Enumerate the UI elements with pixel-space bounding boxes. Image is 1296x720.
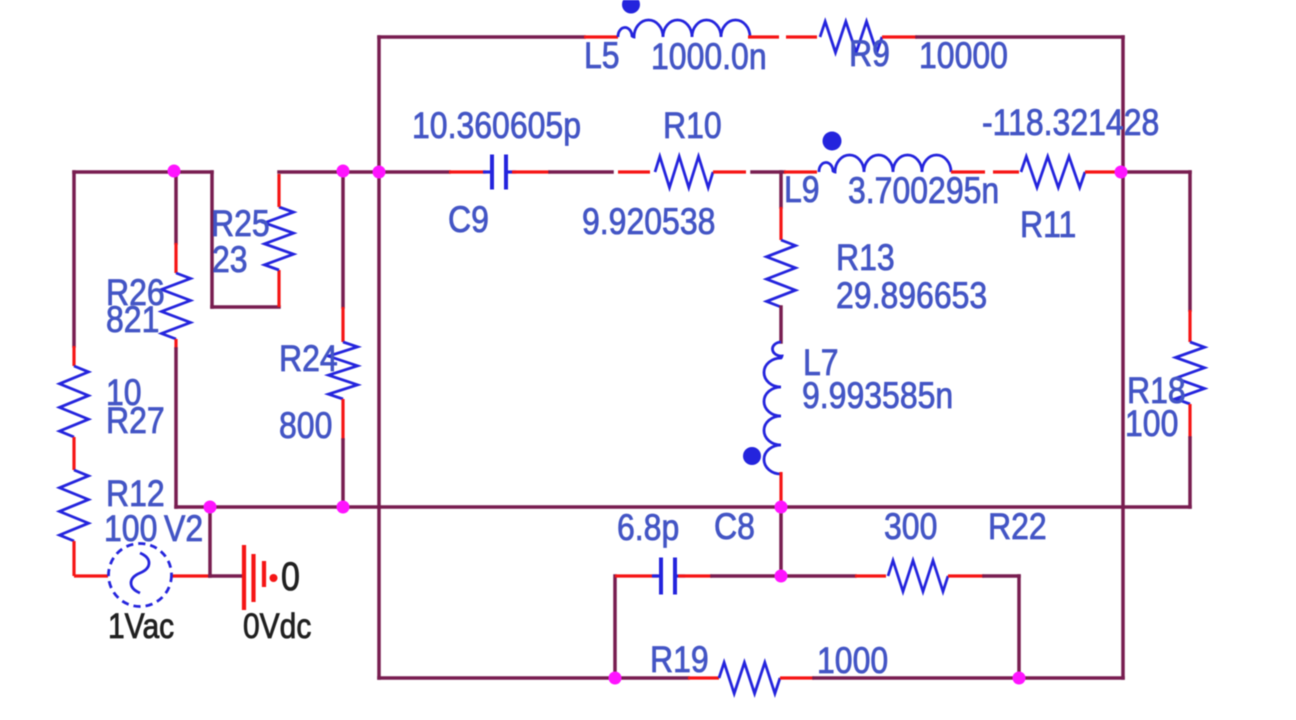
svg-text:C9: C9: [448, 200, 489, 241]
svg-text:C8: C8: [714, 507, 755, 548]
svg-text:-118.321428: -118.321428: [982, 103, 1159, 144]
svg-text:10000: 10000: [919, 36, 1008, 77]
svg-text:10.360605p: 10.360605p: [412, 106, 581, 147]
svg-text:R22: R22: [988, 507, 1047, 548]
svg-text:800: 800: [279, 406, 332, 447]
svg-text:9.993585n: 9.993585n: [802, 376, 953, 417]
svg-text:V2: V2: [164, 509, 203, 550]
svg-text:R10: R10: [663, 106, 722, 147]
svg-text:0: 0: [281, 555, 300, 599]
svg-text:1000: 1000: [817, 641, 888, 682]
svg-text:R11: R11: [1020, 205, 1076, 246]
svg-text:L5: L5: [584, 36, 620, 77]
svg-text:1000.0n: 1000.0n: [651, 37, 767, 78]
svg-text:100: 100: [1125, 404, 1178, 445]
svg-text:1Vac: 1Vac: [108, 607, 174, 646]
svg-text:100: 100: [104, 509, 157, 550]
svg-text:0Vdc: 0Vdc: [243, 607, 311, 646]
svg-text:6.8p: 6.8p: [617, 508, 679, 549]
svg-text:L9: L9: [784, 170, 820, 211]
svg-text:3.700295n: 3.700295n: [848, 171, 999, 212]
svg-text:29.896653: 29.896653: [836, 276, 987, 317]
svg-text:300: 300: [884, 507, 937, 548]
svg-text:R27: R27: [106, 401, 165, 442]
svg-text:R24: R24: [279, 339, 338, 380]
svg-text:9.920538: 9.920538: [582, 202, 715, 243]
svg-text:R9: R9: [849, 34, 890, 75]
svg-text:R19: R19: [650, 640, 709, 681]
svg-text:23: 23: [212, 240, 248, 281]
svg-text:R13: R13: [836, 238, 895, 279]
svg-text:R25: R25: [211, 204, 270, 245]
svg-text:821: 821: [106, 300, 159, 341]
